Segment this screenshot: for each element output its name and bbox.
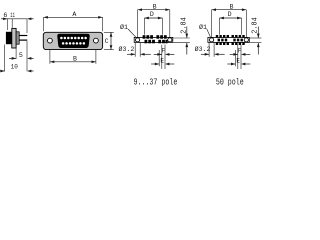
footprint 50: leader line for pin diameter: [207, 29, 211, 38]
svg-text:D: D: [150, 11, 154, 18]
side view: connector shell (black): [6, 32, 12, 44]
svg-text:B: B: [153, 3, 157, 10]
footprint 50: pin group 2 (3 rows): [232, 35, 234, 38]
footprint 50: extension lines 2.84: [250, 37, 262, 39]
svg-text:C: C: [105, 38, 109, 45]
svg-text:11: 11: [10, 12, 15, 19]
footprint 9-37: extension lines B: [137, 10, 139, 37]
side view: solder pin upper: [19, 35, 27, 36]
footprint 9-37: extension lines 2.84: [173, 37, 190, 39]
svg-text:9...37 pole: 9...37 pole: [133, 76, 177, 86]
svg-text:B: B: [73, 55, 77, 62]
footprint 50: dimension line D: [220, 17, 242, 19]
front view: extension lines B: [49, 50, 51, 64]
footprint 9-37: dimension line D: [144, 17, 162, 19]
front view: left mounting hole: [48, 38, 53, 43]
footprint 9-37: left mounting hole: [136, 38, 140, 42]
footprint 9-37: extension lines hole diameter: [134, 43, 136, 57]
front view: flange: [43, 32, 102, 49]
svg-text:Ø3.2: Ø3.2: [195, 45, 211, 53]
footprint 50: extension lines hole diameter: [208, 43, 210, 57]
side view: insulator body: [16, 32, 19, 44]
footprint 9-37: dimension line B: [138, 9, 170, 11]
svg-text:E: E: [236, 57, 240, 64]
footprint 50: dimension line 2.84: [257, 27, 259, 39]
footprint 9-37: dimension line 2.84: [186, 27, 188, 39]
front view: right mounting hole: [94, 38, 99, 43]
side view: top dimension line with arrows: [1, 18, 8, 20]
front view: socket holes top row (8): [60, 37, 63, 40]
footprint 9-37: right mounting hole: [168, 38, 172, 42]
footprint 9-37: extension lines D: [143, 18, 145, 35]
footprint 9-37: leader line for pin diameter: [128, 29, 137, 38]
footprint 50: left mounting hole: [210, 38, 214, 42]
front view: dimension line C: [110, 32, 112, 49]
svg-text:E: E: [160, 57, 164, 64]
side view: dimension line 10: [0, 70, 5, 72]
footprint 50: extension lines D: [219, 18, 221, 35]
svg-text:50 pole: 50 pole: [216, 76, 244, 86]
footprint 50: extension + dimension lines E: [234, 50, 236, 66]
svg-text:Ø1: Ø1: [120, 23, 128, 31]
footprint 9-37: extension + dimension lines F: [161, 45, 163, 69]
svg-text:Ø3.2: Ø3.2: [118, 45, 134, 53]
footprint 9-37: pin group 1 (staggered 2 rows): [143, 35, 146, 39]
footprint 50: right mounting hole: [244, 38, 248, 42]
svg-text:10: 10: [11, 63, 18, 70]
svg-text:5: 5: [19, 52, 23, 59]
footprint 50: dimension line hole diameter: [201, 53, 209, 55]
svg-text:D: D: [228, 11, 232, 18]
svg-text:B: B: [230, 3, 234, 10]
footprint 50: body bar: [208, 37, 249, 42]
footprint 50: extension lines B: [211, 10, 213, 37]
side view: flange plate: [12, 28, 16, 48]
footprint 9-37: dimension line hole diameter: [127, 53, 135, 55]
front view: dimension line B: [50, 61, 96, 63]
front view: D-sub insert (black) with socket holes: [57, 34, 89, 48]
footprint 50: pin group 1 (3 rows): [216, 35, 218, 38]
side view: solder pin lower: [19, 40, 27, 41]
footprint 9-37: extension + dimension lines E: [158, 50, 160, 66]
side view: extension lines top: [7, 19, 9, 30]
side view: extension lines bottom: [4, 45, 6, 72]
footprint 9-37: pin group 2 (staggered 2 rows): [156, 35, 159, 39]
front view: extension lines C: [104, 31, 114, 33]
footprint 9-37: body bar: [134, 37, 173, 42]
side view: dimension line 5: [9, 57, 16, 59]
svg-text:Ø1: Ø1: [199, 23, 207, 31]
front view: dimension line A: [44, 16, 103, 18]
front view: extension lines A: [43, 17, 45, 31]
footprint 50: extension + dimension lines F: [237, 45, 239, 69]
front view: socket holes bottom row (7): [62, 42, 65, 45]
svg-text:2.84: 2.84: [181, 17, 189, 34]
footprint 50: dimension line B: [212, 9, 247, 11]
